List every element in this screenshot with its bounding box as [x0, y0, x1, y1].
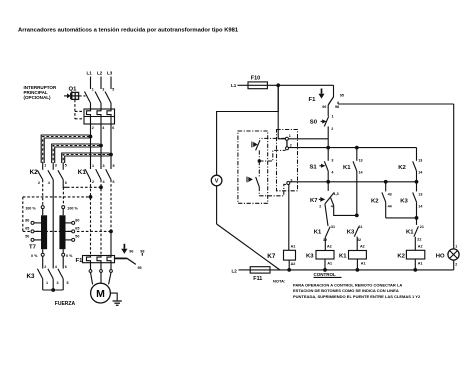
terminal circles to motor [89, 270, 112, 273]
node junction remote [258, 159, 261, 162]
svg-text:80: 80 [25, 218, 29, 222]
contact K7 timed [310, 182, 339, 209]
wire L1 to F10 [238, 84, 249, 86]
wire duct phase2 to K2 pole2 [52, 144, 100, 163]
svg-text:96: 96 [322, 105, 326, 109]
remote start button (NO) [247, 161, 259, 196]
svg-text:22: 22 [417, 238, 421, 242]
T7 right tap 50 [66, 234, 80, 241]
node junction S0/S1 [326, 146, 330, 150]
contactor K2 pole 2 [48, 163, 57, 185]
wire duct phase3 to K2 pole3 [62, 153, 110, 163]
svg-text:1: 1 [92, 164, 94, 168]
node junction on K1 phase1 drop [89, 195, 93, 199]
svg-text:F1: F1 [309, 97, 317, 103]
label CONTROL [314, 272, 342, 277]
wire left edge vertical (dashed) [22, 197, 24, 232]
contactor K2 pole 1 [37, 163, 46, 185]
node junction phase2 [99, 144, 103, 148]
wire phase2 vertical to K1 [100, 124, 102, 169]
wire terminal3 down to K7 coil [288, 185, 290, 251]
wire K3 shorting bar [43, 289, 64, 291]
svg-text:5: 5 [65, 163, 67, 167]
wire bus terminal2 to K2 seal [289, 147, 417, 149]
svg-text:K7: K7 [267, 253, 276, 260]
wire phase L3 drop [110, 77, 112, 90]
wire right column down to lamp [453, 104, 455, 249]
svg-text:100 %: 100 % [25, 206, 36, 210]
svg-text:100 %: 100 % [67, 206, 78, 210]
wire corner down to F1-95 [333, 85, 335, 97]
Q1 pole blade 2 [95, 92, 101, 104]
contactor K1 pole 3 [106, 164, 115, 184]
contactor K3 pole 1 [37, 265, 48, 290]
node junction K3 coil [323, 268, 327, 272]
svg-text:2: 2 [92, 180, 94, 184]
node junction on K1 phase2 drop [99, 185, 103, 189]
wire K2-6 to right 100% tap (dashed) [62, 187, 64, 205]
svg-text:80: 80 [75, 218, 79, 222]
svg-text:Q1: Q1 [69, 87, 78, 93]
svg-text:21: 21 [420, 225, 424, 229]
svg-text:65: 65 [25, 227, 29, 231]
node junction K2 coil feed [415, 216, 419, 220]
svg-text:S1: S1 [310, 165, 318, 171]
contact K1 21-22 (interlock) [406, 218, 424, 242]
svg-text:4: 4 [331, 171, 334, 175]
svg-text:13: 13 [359, 159, 363, 163]
svg-text:6: 6 [65, 181, 67, 185]
svg-text:98: 98 [140, 249, 144, 253]
svg-text:T7: T7 [29, 244, 37, 250]
node junction star point [51, 288, 55, 292]
svg-text:CONTROL: CONTROL [314, 272, 336, 277]
svg-text:L2: L2 [97, 71, 103, 76]
terminal clema 3 [287, 182, 290, 185]
svg-text:14: 14 [418, 204, 423, 208]
T7 left winding [41, 215, 47, 249]
svg-text:3: 3 [57, 281, 59, 285]
Q1 pole blade 1 [85, 92, 91, 104]
motor M1 [91, 283, 111, 303]
T7 left 0% tap [31, 249, 44, 258]
wire pole1 to overload [90, 103, 92, 109]
node junction after F10 [276, 83, 280, 87]
svg-text:3: 3 [102, 88, 104, 92]
wire to K1 coil [356, 237, 358, 251]
wire phase L1 drop [90, 77, 92, 90]
svg-text:13: 13 [418, 192, 422, 196]
svg-text:6: 6 [113, 180, 115, 184]
svg-text:2: 2 [455, 262, 457, 266]
T7 left tap 65 [25, 227, 41, 233]
ground [110, 293, 121, 305]
wire control bottom bus [270, 269, 454, 271]
svg-text:44: 44 [388, 204, 393, 208]
coil K3 [306, 245, 334, 270]
svg-text:K2: K2 [397, 253, 405, 259]
T7 left 100% tap [25, 206, 44, 216]
svg-text:2: 2 [92, 126, 94, 130]
svg-text:HO: HO [436, 254, 445, 260]
node junction K2-43 branch [384, 180, 388, 184]
breaker Q1 linkage to overload block [75, 100, 84, 119]
node junction K7 coil [287, 268, 291, 272]
svg-text:A1: A1 [291, 244, 296, 248]
svg-text:S0: S0 [310, 120, 318, 126]
Q1 pole blade 3 [105, 92, 111, 104]
svg-text:K3: K3 [347, 230, 355, 236]
wire left 0% to K3 [42, 256, 44, 268]
F1 trip bar [115, 257, 127, 259]
svg-text:5: 5 [113, 164, 115, 168]
svg-text:5: 5 [112, 88, 114, 92]
wire K2-4 phase2 straight down [52, 180, 54, 269]
remote wire to terminal 2 [259, 150, 285, 161]
F1 trip contact 95-96-98 [127, 249, 145, 269]
wire to K2 coil [414, 237, 416, 251]
svg-text:A1: A1 [418, 261, 423, 265]
wire F1 outputs [91, 263, 112, 270]
wire phase1 vertical to K1 [90, 124, 92, 169]
svg-text:1: 1 [332, 115, 334, 119]
voltmeter V [211, 175, 222, 186]
svg-text:K2: K2 [30, 169, 39, 176]
svg-text:4: 4 [102, 126, 105, 130]
svg-text:95: 95 [340, 93, 344, 97]
svg-text:96: 96 [129, 249, 133, 253]
svg-text:13: 13 [418, 159, 422, 163]
contact K2 43-44 [371, 182, 393, 218]
svg-text:K1: K1 [314, 230, 322, 236]
contact F1 95-96-98 (control) [309, 89, 344, 110]
svg-text:2: 2 [290, 144, 292, 148]
F1 trip arrow [121, 244, 127, 254]
svg-text:3: 3 [331, 159, 333, 163]
contact K2 13-14 (seal) [398, 148, 423, 182]
pushbutton S1 (start) [310, 148, 335, 182]
svg-text:1: 1 [44, 163, 46, 167]
svg-text:M: M [96, 288, 105, 300]
contact K3 13-14 [400, 182, 423, 218]
wire L2 to F11 [239, 269, 251, 271]
fuse F10 [248, 76, 267, 89]
coil K1 [339, 245, 366, 270]
svg-text:31: 31 [331, 225, 335, 229]
svg-text:1: 1 [455, 245, 457, 249]
svg-text:6: 6 [112, 126, 114, 130]
contactor K2 pole 3 [58, 163, 67, 185]
svg-text:95: 95 [138, 266, 142, 270]
node junction K1 coil [356, 268, 360, 272]
wire K7-2 to K1-31 [325, 204, 328, 226]
svg-text:98: 98 [335, 105, 339, 109]
wire voltmeter diagonal to L2 bus [217, 224, 280, 270]
node junction K3-13 branch [415, 180, 419, 184]
svg-text:0 %: 0 % [66, 254, 73, 258]
svg-text:2: 2 [44, 265, 46, 269]
wire K7-4 branch [334, 205, 357, 215]
svg-text:14: 14 [418, 171, 423, 175]
svg-text:2: 2 [319, 204, 321, 208]
svg-text:K3: K3 [400, 199, 408, 205]
label INTERRUPTOR PRINCIPAL (OPCIONAL) [24, 85, 57, 100]
terminal clema 1 [285, 137, 288, 140]
svg-text:K1: K1 [343, 165, 351, 171]
coil K7 [267, 244, 295, 270]
svg-text:A1: A1 [361, 261, 366, 265]
svg-text:4: 4 [48, 181, 51, 185]
contactor K1 pole 2 [96, 164, 106, 184]
wire right 0% to K3 [62, 256, 64, 268]
remote stop button (NC) [252, 138, 286, 161]
node junction on K1 phase3 drop [109, 230, 113, 234]
svg-text:Arrancadores automáticos a ten: Arrancadores automáticos a tensión reduc… [18, 28, 239, 34]
wire phase3 vertical to K1 [110, 124, 112, 169]
wire bus corner up to lamp [453, 260, 455, 270]
wire K1-6 drop to F1 (solid) [110, 231, 112, 255]
svg-text:2: 2 [331, 127, 333, 131]
T7 left tap 50 [25, 234, 41, 241]
svg-text:5: 5 [67, 281, 69, 285]
wire to K3 coil [324, 237, 326, 251]
svg-text:K2: K2 [371, 199, 379, 205]
svg-text:A1: A1 [327, 261, 332, 265]
remote station box (dash-dot) [238, 131, 268, 203]
svg-text:50: 50 [25, 234, 29, 238]
pilot lamp H0 [436, 245, 459, 267]
svg-text:1: 1 [92, 88, 94, 92]
svg-text:K7: K7 [310, 198, 318, 204]
wire bus terminal3 to K2 column [290, 181, 417, 183]
contact K3 31-32 (interlock) [347, 225, 363, 242]
svg-text:1,3: 1,3 [334, 192, 339, 196]
svg-text:K1: K1 [406, 230, 414, 236]
svg-text:NOTA:: NOTA: [273, 279, 285, 284]
svg-text:L1: L1 [87, 71, 93, 76]
node junction K2 coil [413, 268, 417, 272]
wire F10 to F1 corner [267, 84, 333, 86]
svg-text:3: 3 [103, 164, 105, 168]
svg-text:K2: K2 [398, 165, 406, 171]
wire K2-6 to K1-4 node (dashed) [67, 186, 101, 188]
terminal strip box (dash-dot) [277, 130, 298, 191]
contact K1 31-32 (interlock) [314, 225, 335, 242]
wires to motor [91, 272, 112, 284]
wire to voltmeter [217, 85, 279, 175]
svg-text:1: 1 [289, 134, 291, 138]
wire terminal1 to S0 column [288, 138, 328, 140]
node junction phase1 [89, 135, 93, 139]
contactor K3 pole 2 [48, 265, 59, 290]
wire phase L2 drop [100, 77, 102, 90]
node junction phase3 [109, 153, 113, 157]
svg-text:PARA OPERACION A CONTROL REMOT: PARA OPERACION A CONTROL REMOTO CONECTAR… [293, 282, 402, 287]
overload relay F1 block [83, 256, 115, 263]
pushbutton S0 (stop) [310, 105, 334, 148]
wire K1-4 drop to F1 (dashed) [100, 180, 102, 256]
svg-text:(OPCIONAL): (OPCIONAL) [24, 95, 52, 100]
svg-text:6: 6 [65, 265, 67, 269]
wire K1-6 drop (dashed) [110, 180, 112, 232]
svg-text:A2: A2 [327, 245, 332, 249]
node junction S1 out [326, 180, 330, 184]
svg-text:ESTACION DE BOTONES COMO SE IN: ESTACION DE BOTONES COMO SE INDICA CON L… [293, 288, 399, 293]
T7 right winding [59, 215, 65, 249]
wire duct phase1 to K2 pole1 [41, 135, 89, 163]
svg-text:4: 4 [55, 265, 58, 269]
svg-text:65: 65 [75, 227, 79, 231]
contactor K3 pole 3 [58, 265, 69, 290]
jumper terminals 1-2 [286, 140, 288, 147]
contact K1 13-14 (seal) [343, 148, 364, 216]
svg-text:50: 50 [75, 234, 79, 238]
wire 65% tap run left (dashed) [23, 196, 91, 198]
svg-text:F11: F11 [253, 276, 262, 282]
svg-text:V: V [215, 179, 219, 185]
svg-text:14: 14 [359, 171, 364, 175]
T7 right 100% tap [62, 206, 79, 216]
svg-text:L3: L3 [107, 71, 113, 76]
T7 right tap 65 [66, 227, 80, 233]
wire feed to terminal 1 [278, 85, 285, 139]
contactor K1 pole 1 [85, 164, 94, 184]
svg-text:2: 2 [38, 181, 40, 185]
svg-text:F10: F10 [251, 76, 260, 82]
note NOTA [273, 279, 421, 299]
svg-text:K3: K3 [27, 273, 36, 280]
coil K2 [397, 245, 424, 270]
T7 left tap 80 [25, 218, 41, 224]
wire K1-2 drop to F1 (dashed) [90, 180, 92, 256]
svg-text:L2: L2 [232, 268, 238, 273]
T7 right 0% tap [62, 249, 73, 258]
wire K2-6 corner [63, 180, 67, 188]
svg-text:K1: K1 [339, 253, 347, 259]
node junction K3 coil feed [355, 214, 359, 218]
svg-text:4: 4 [103, 180, 106, 184]
remote wire to terminal 3 [259, 184, 287, 195]
svg-text:L1: L1 [231, 83, 237, 88]
node junction K1 seal [355, 146, 359, 150]
svg-text:3: 3 [55, 163, 57, 167]
T7 right tap 80 [66, 218, 80, 224]
svg-text:A2: A2 [291, 262, 296, 266]
wire K2-44 to node [386, 217, 417, 219]
svg-text:1: 1 [46, 281, 48, 285]
breaker Q1 operator symbol [64, 92, 79, 99]
terminal clema 2 [286, 147, 289, 150]
breaker Q1 linkage to poles [79, 95, 86, 97]
wire 65% tap horizontal (dashed) [23, 230, 111, 232]
svg-text:PUNTEADA, SUPRIMIENDO EL PUENT: PUNTEADA, SUPRIMIENDO EL PUENTE ENTRE LA… [293, 294, 421, 299]
svg-text:A2: A2 [360, 245, 365, 249]
svg-text:A2: A2 [418, 245, 423, 249]
fuse F11 [250, 267, 270, 282]
wire voltmeter down [216, 186, 218, 224]
svg-text:K3: K3 [306, 253, 314, 259]
svg-text:43: 43 [388, 192, 392, 196]
overload block of Q1 [84, 109, 115, 124]
wire pole2 to overload [100, 103, 102, 109]
wire 98 to lamp column [338, 103, 454, 105]
svg-text:0 %: 0 % [31, 254, 38, 258]
wire pole3 to overload [110, 103, 112, 109]
svg-text:FUERZA: FUERZA [55, 301, 76, 307]
wire K2-2 to 100% tap (dashed) [42, 180, 44, 206]
